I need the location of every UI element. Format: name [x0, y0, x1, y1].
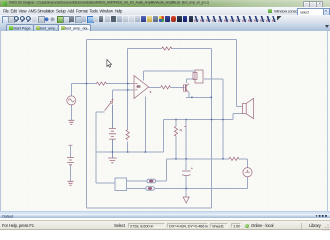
svg-text:R: R	[180, 128, 183, 133]
